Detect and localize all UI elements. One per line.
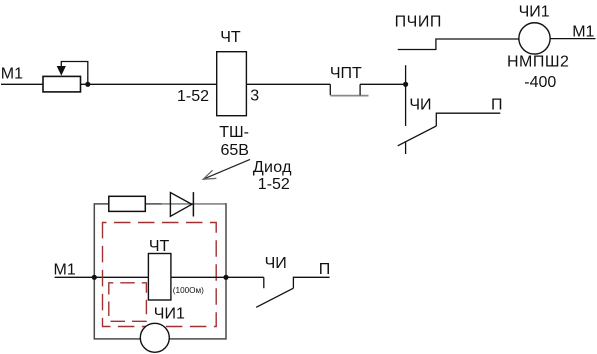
relay coil box ЧТ (bottom, 100Ом) — [148, 254, 171, 301]
svg-text:М1: М1 — [1, 66, 23, 83]
contact ЧИ (bottom) to П — [293, 277, 329, 288]
svg-text:3: 3 — [250, 87, 259, 104]
svg-text:Диод: Диод — [253, 159, 292, 176]
red dashed rect (inner) — [109, 283, 147, 322]
resistor (bottom, on box top edge) — [109, 196, 146, 211]
svg-text:ЧТ: ЧТ — [220, 29, 241, 46]
svg-text:65В: 65В — [221, 142, 249, 159]
contact ЧИ (bottom) movable blade — [256, 288, 293, 307]
wire resistor R1 to relay box ЧТ — [81, 83, 217, 85]
arrow pointing to diode — [203, 159, 250, 179]
wire (gray top segment resistor to corner) — [162, 203, 226, 205]
svg-text:ЧПТ: ЧПТ — [330, 65, 362, 82]
junction dot at R1 tap — [85, 82, 90, 87]
svg-text:ЧИ: ЧИ — [409, 97, 431, 114]
svg-text:П: П — [319, 261, 331, 278]
svg-text:ЧИ1: ЧИ1 — [519, 3, 550, 20]
svg-text:(100Ом): (100Ом) — [173, 286, 204, 295]
svg-text:-400: -400 — [524, 74, 556, 91]
svg-text:П: П — [491, 97, 503, 114]
svg-text:1-52: 1-52 — [177, 88, 209, 105]
wire ЧПТ to junction — [360, 83, 406, 85]
wire box ЧТ to right junction and contact ЧИ — [171, 276, 264, 278]
svg-text:М1: М1 — [572, 23, 594, 40]
R1 tap wire with arrow — [61, 62, 88, 85]
relay enclosure box (bottom) — [94, 204, 226, 339]
svg-text:М1: М1 — [54, 261, 76, 278]
red dashed rect (outer) — [103, 223, 217, 327]
svg-text:ТШ-: ТШ- — [219, 124, 249, 141]
contact ПЧИП fixed terminal wire to coil ЧИ1 — [398, 39, 519, 50]
vertical wire at junction — [405, 65, 407, 126]
wire from M1 to resistor R1 — [1, 83, 43, 85]
wire ЧТ box to contact ЧПТ — [246, 83, 330, 85]
svg-text:ЧИ1: ЧИ1 — [154, 305, 185, 322]
resistor R1 (adjustable, top-left) — [43, 76, 81, 92]
relay coil ЧИ1 (НМПШ2-400) — [519, 23, 550, 54]
junction dot (node between ЧПТ, ПЧИП, ЧИ) — [403, 82, 408, 87]
relay coil box ЧТ (ТШ-65В) — [217, 52, 247, 116]
junction dot (left side of box) — [92, 275, 97, 280]
svg-text:ЧИ: ЧИ — [265, 255, 287, 272]
contact ЧИ (top) movable blade — [398, 126, 437, 146]
diode 1-52 — [170, 193, 191, 217]
svg-text:ПЧИП: ПЧИП — [395, 13, 442, 30]
relay coil ЧИ1 (bottom circle) — [140, 323, 169, 352]
contact ЧПТ — [329, 84, 331, 95]
svg-text:ЧТ: ЧТ — [149, 238, 170, 255]
svg-text:1-52: 1-52 — [258, 176, 290, 193]
wire M1 to relay box (bottom) — [55, 276, 149, 278]
contact ЧИ (top) fixed terminal to П — [436, 113, 500, 126]
wire coil ЧИ1 to M1 — [550, 38, 595, 40]
svg-text:НМПШ2: НМПШ2 — [507, 54, 569, 71]
junction dot (right side of box) — [223, 275, 228, 280]
